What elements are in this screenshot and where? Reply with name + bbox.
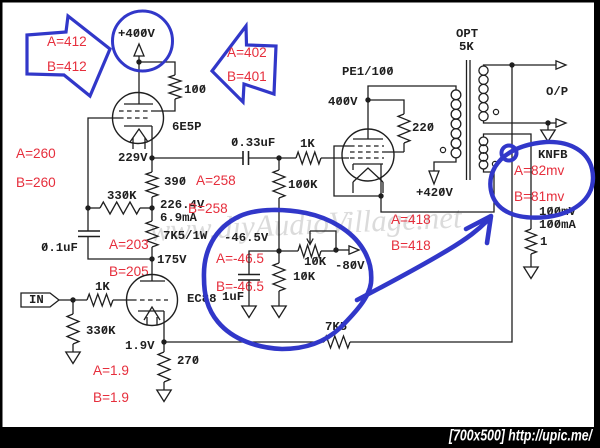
svg-text:A=412: A=412 (47, 34, 87, 49)
svg-text:10K: 10K (304, 255, 327, 269)
wire to O/P arrow (512, 64, 556, 66)
OPT core (466, 60, 468, 180)
potentiometer 10K (298, 245, 321, 257)
ground O/P (541, 130, 555, 142)
svg-text:KNFB: KNFB (538, 148, 568, 162)
PE1 heater (353, 168, 383, 182)
wire node to 270 (163, 342, 165, 352)
EC88 cathode lead (163, 311, 165, 342)
svg-text:1K: 1K (300, 137, 315, 151)
wire primary to +420V (434, 158, 456, 171)
EC88 plate lead (151, 259, 153, 281)
capacitor 0.33uF (242, 151, 244, 165)
svg-text:330K: 330K (86, 324, 116, 338)
svg-text:0.33uF: 0.33uF (231, 136, 275, 150)
resistor 7K5 feedback (324, 336, 350, 348)
OPT primary dot (440, 147, 445, 152)
PE1 screen (350, 151, 384, 153)
wire 226V to 7K5/1W (151, 208, 153, 221)
svg-text:220: 220 (412, 121, 434, 135)
svg-text:390: 390 (164, 175, 186, 189)
PE1 plate (353, 138, 383, 140)
wire feedback to cathode (164, 341, 324, 343)
border frame top (0, 0, 600, 3)
wire 220 to screen (403, 143, 405, 152)
6E5P control grid (119, 117, 150, 119)
svg-text:100K: 100K (288, 178, 318, 192)
PE1 control grid (350, 157, 384, 159)
wire 0.1uF to 175V node (88, 237, 152, 260)
resistor 1 (526, 229, 537, 254)
capacitor 0.1uF (78, 230, 100, 232)
resistor 270 (158, 352, 170, 382)
wire node to gnd (547, 123, 549, 130)
wire R1 to gnd (530, 254, 532, 267)
wire 330K to gnd (72, 344, 74, 352)
wire cap to node (249, 157, 280, 159)
terminal +420V (429, 171, 439, 184)
blue arrow to KNFB (357, 220, 488, 300)
wire to O/P common arrow (548, 122, 556, 124)
svg-text:1.9V: 1.9V (125, 339, 155, 353)
node grid-divider (85, 205, 90, 210)
ground 1uF (242, 306, 256, 318)
6E5P plate (124, 103, 153, 105)
wire input node to 330K (72, 300, 74, 314)
svg-text:A=260: A=260 (16, 146, 56, 161)
ground 10K (272, 306, 286, 318)
node 1.9V (161, 339, 166, 344)
svg-text:1uF: 1uF (222, 290, 244, 304)
svg-text:270: 270 (177, 354, 199, 368)
node +400V junction (136, 59, 141, 64)
wire secondary top to O/P (484, 65, 513, 66)
resistor 1K interstage (296, 152, 321, 164)
wire 10K to gnd (278, 291, 280, 306)
wire 400V to primary (368, 86, 456, 100)
ground 270 (157, 390, 171, 402)
svg-text:B=260: B=260 (16, 175, 56, 190)
wire 229V to R390 (151, 158, 153, 172)
EC88 heater (144, 307, 160, 320)
PE1 cathode lead (380, 164, 382, 196)
blue arrow left (A/B=402) (212, 26, 276, 102)
node coupling (276, 155, 281, 160)
terminal O/P common (556, 119, 566, 127)
svg-text:5K: 5K (459, 40, 474, 54)
tube PE1/100 envelope (342, 129, 394, 181)
node 226.4V (149, 205, 154, 210)
svg-text:O/P: O/P (546, 85, 568, 99)
border frame right (594, 0, 600, 448)
terminal IN (21, 293, 59, 307)
svg-text:100: 100 (184, 83, 206, 97)
svg-text:+400V: +400V (118, 27, 156, 41)
node -46.5V (276, 248, 281, 253)
terminal -80V (336, 249, 349, 251)
svg-text:A=203: A=203 (109, 237, 149, 252)
node 400V (365, 97, 370, 102)
wire 400V to 220 (368, 100, 404, 114)
ground input (66, 352, 80, 364)
6E5P heater (130, 129, 148, 142)
wire 7K5/1W to 175V (151, 247, 153, 259)
6E5P grid lead (88, 118, 119, 231)
svg-text:100mA: 100mA (539, 218, 577, 232)
resistor 220 (398, 114, 410, 143)
6E5P plate lead (138, 62, 140, 104)
svg-text:175V: 175V (157, 253, 187, 267)
wire R100 to screen (153, 99, 175, 111)
blue circle +400V (113, 11, 173, 71)
6E5P cathode lead (151, 126, 153, 158)
node 229V (149, 155, 154, 160)
svg-text:7K5/1W: 7K5/1W (163, 229, 208, 243)
svg-text:1K: 1K (95, 280, 110, 294)
node O/P top (509, 62, 514, 67)
wire pot to node (321, 250, 336, 252)
svg-text:B=412: B=412 (47, 59, 87, 74)
svg-text:1: 1 (540, 235, 547, 249)
ground R1 (524, 267, 538, 279)
PE1 cathode (353, 163, 383, 165)
wire node to 100K (278, 158, 280, 170)
capacitor 1uF (249, 251, 279, 275)
PE1 suppressor (350, 145, 384, 147)
svg-text:+420V: +420V (416, 186, 454, 200)
resistor 10K lower (273, 263, 285, 291)
wire +400V node to R100 (139, 62, 175, 75)
svg-text:A=402: A=402 (227, 45, 267, 60)
border frame left (0, 0, 3, 448)
wire bias node to 10K (278, 251, 280, 263)
PE1 suppressor tie (334, 146, 381, 196)
resistor 330K upper (100, 202, 140, 214)
wire 330K leads (88, 207, 100, 209)
svg-text:A=82mv: A=82mv (514, 163, 564, 178)
EC88 grid (132, 299, 168, 301)
OPT secondary dot (493, 109, 498, 114)
svg-text:B=401: B=401 (227, 69, 267, 84)
6E5P cathode (124, 125, 152, 127)
OPT primary coil (451, 90, 461, 100)
resistor 330K input (67, 314, 79, 344)
tube 6E5P envelope (113, 93, 164, 144)
blue circle KNFB (490, 142, 593, 218)
wire KNFB bottom to cathode (381, 169, 494, 213)
wire 100K to bias node (278, 198, 280, 251)
resistor 7K5/1W (146, 221, 158, 247)
svg-text:IN: IN (29, 293, 44, 307)
pot wiper (310, 231, 336, 251)
bottom black bar (0, 427, 600, 448)
node input (70, 297, 75, 302)
PE1 screen lead (384, 151, 404, 153)
6E5P screen grid (119, 110, 153, 112)
wire secondary bottom (484, 121, 549, 124)
svg-text:A=-46.5: A=-46.5 (216, 251, 264, 266)
svg-text:B=1.9: B=1.9 (93, 390, 129, 405)
OPT KNFB coil (479, 137, 488, 146)
node PE1 cathode (378, 193, 383, 198)
wire 1K to grid (113, 299, 132, 301)
node pot (333, 247, 338, 252)
node O/P common (545, 120, 550, 125)
wire R390 to 226V node (151, 197, 153, 208)
wire 270 to gnd (163, 382, 165, 390)
wire KNFB top (484, 134, 532, 229)
blue ellipse bias network (204, 210, 371, 349)
tube EC88 envelope (127, 275, 178, 326)
resistor 100 (169, 75, 181, 99)
PE1 plate lead (367, 100, 369, 139)
EC88 plate (140, 280, 165, 282)
resistor 390 (146, 172, 158, 197)
svg-text:A=418: A=418 (391, 212, 431, 227)
svg-text:330K: 330K (107, 189, 137, 203)
resistor 1K input (87, 294, 113, 306)
svg-text:OPT: OPT (456, 27, 479, 41)
svg-text:400V: 400V (328, 95, 358, 109)
svg-text:10K: 10K (293, 270, 316, 284)
resistor 100K (273, 170, 285, 198)
svg-text:-80V: -80V (335, 259, 365, 273)
OPT secondary coil (479, 66, 488, 75)
svg-text:-46.5V: -46.5V (224, 231, 269, 245)
svg-text:6E5P: 6E5P (172, 120, 202, 134)
wire 229V to cap (152, 157, 243, 159)
svg-text:B=418: B=418 (391, 238, 431, 253)
svg-text:229V: 229V (118, 151, 148, 165)
svg-text:[700x500] http://upic.me/: [700x500] http://upic.me/ (448, 428, 593, 445)
terminal O/P hot (556, 61, 566, 69)
wire node to 1K (279, 157, 296, 159)
svg-text:B=81mv: B=81mv (514, 189, 564, 204)
wire 1K to PE1 grid (321, 157, 349, 159)
wire IN to node (59, 299, 87, 301)
terminal +400V arrow (134, 44, 144, 56)
OPT KNFB dot (492, 161, 497, 166)
wire bias node to pot (279, 250, 298, 252)
svg-text:6.9mA: 6.9mA (160, 211, 198, 225)
EC88 cathode (138, 310, 164, 312)
svg-text:PE1/100: PE1/100 (342, 65, 394, 79)
wire feedback riser (350, 65, 512, 342)
svg-text:A=1.9: A=1.9 (93, 363, 129, 378)
svg-text:A=258: A=258 (196, 173, 236, 188)
node 175V (149, 256, 154, 261)
blue arrow right (A/B=412) (27, 16, 110, 96)
svg-text:EC88: EC88 (187, 292, 217, 306)
